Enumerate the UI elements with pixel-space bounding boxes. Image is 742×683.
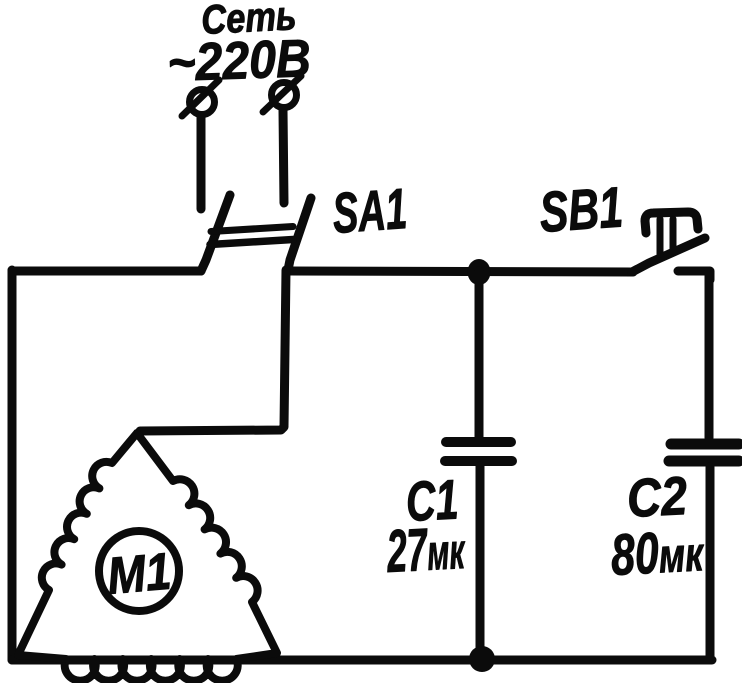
wire middle branch — [140, 270, 286, 431]
terminal X2 — [263, 76, 301, 112]
label C2 — [625, 465, 688, 529]
wire from terminal X2 — [283, 110, 284, 203]
label 27мк — [384, 515, 467, 586]
wire right side upper — [705, 271, 714, 438]
node A — [468, 259, 491, 285]
wire C1 lower — [476, 466, 485, 660]
wire C1 upper — [475, 271, 484, 438]
label Сеть — [200, 0, 297, 44]
label SB1 — [537, 174, 624, 244]
capacitor C1 — [445, 442, 512, 461]
label 80мк — [609, 518, 706, 588]
capacitor C2 — [669, 444, 739, 461]
wire top-right segment — [288, 271, 633, 272]
svg-text:SA1: SA1 — [330, 177, 409, 245]
wire top-left segment — [12, 271, 201, 290]
wire left side — [8, 270, 17, 660]
motor M1 winding triangle — [18, 433, 277, 681]
node B — [469, 646, 495, 672]
svg-text:C2: C2 — [625, 465, 688, 529]
motor M1 circle — [99, 531, 179, 611]
wire from terminal X1 — [197, 117, 206, 209]
wire right side lower — [706, 467, 715, 660]
wire bottom — [12, 656, 712, 665]
label SA1 — [330, 177, 409, 245]
push button SB1 — [632, 212, 710, 280]
svg-text:М1: М1 — [105, 543, 173, 606]
label М1 — [105, 543, 173, 606]
svg-text:27мк: 27мк — [384, 515, 467, 586]
label ~220В — [166, 28, 311, 93]
svg-text:SB1: SB1 — [537, 174, 624, 244]
terminal X1 — [182, 80, 219, 116]
switch SA1 — [201, 195, 311, 271]
svg-text:80мк: 80мк — [609, 518, 706, 588]
label C1 — [404, 469, 459, 533]
